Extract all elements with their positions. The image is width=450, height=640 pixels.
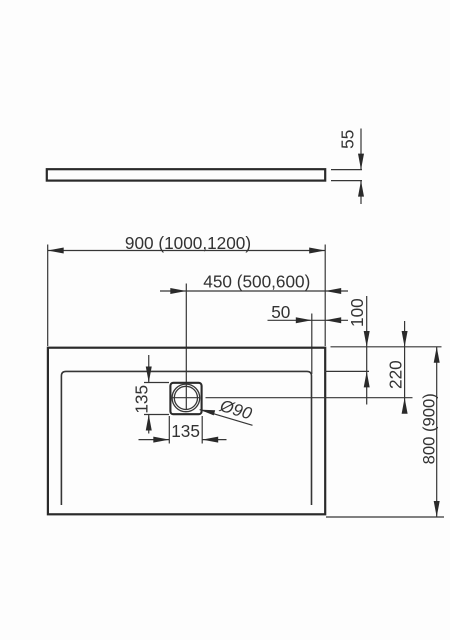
top edge extension line (right) [331, 346, 442, 348]
inner edge extension line (top) [325, 370, 370, 372]
side view tray outline [47, 169, 325, 180]
dim 55 line lower tail [360, 181, 362, 204]
dim 800 arrow up [434, 347, 440, 363]
drain inner circle [174, 386, 197, 409]
dim 450 line [160, 290, 348, 292]
svg-text:55: 55 [338, 130, 358, 149]
dim 220 arrow down [402, 331, 408, 347]
dim 55 arrow down [358, 154, 364, 170]
svg-text:135: 135 [171, 421, 200, 441]
dim 50 extension line [311, 314, 313, 375]
dim 55 line upper tail [360, 129, 362, 170]
svg-text:450 (500,600): 450 (500,600) [203, 272, 310, 292]
diameter leader arrow [200, 410, 216, 416]
diameter leader line [200, 410, 253, 426]
dim 450 arrow at centerline [170, 288, 186, 294]
svg-text:900 (1000,1200): 900 (1000,1200) [125, 233, 251, 253]
drain square [170, 383, 201, 414]
dim 50 line [268, 319, 349, 321]
dim 55 extension line bottom [331, 180, 362, 182]
dim 100 arrow down [364, 331, 370, 347]
dim 135 horizontal: extension left [168, 416, 170, 444]
svg-text:800 (900): 800 (900) [420, 393, 439, 464]
drain outer circle [172, 384, 200, 412]
dim 100 line [366, 296, 368, 405]
dim 135 vertical: lower tail [148, 415, 150, 434]
svg-text:135: 135 [132, 385, 152, 414]
dim 450 arrow at right edge [325, 288, 341, 294]
dim 900 arrow left [48, 248, 64, 254]
dim 50 arrow right [325, 317, 341, 323]
dim 900 arrow right [309, 248, 325, 254]
dim 800 arrow down [434, 501, 440, 517]
bottom edge extension line (right) [326, 516, 444, 518]
dim 800 line [436, 347, 438, 517]
drain cross horizontal [172, 397, 200, 399]
dim 135 horizontal: right tail [202, 439, 226, 441]
dim 135 horizontal: arrow left [202, 437, 218, 443]
dim 50 arrow left [296, 317, 312, 323]
plan view inner basin outline [61, 371, 311, 505]
svg-text:50: 50 [271, 302, 290, 322]
dim 135 vertical: extension bottom [144, 414, 169, 416]
dim 55 extension line top [331, 169, 362, 171]
dim 900 extension line left [47, 245, 49, 347]
dim 55 arrow up [358, 181, 364, 197]
dim 900 line [48, 250, 326, 252]
plan view outer rectangle [48, 348, 325, 515]
dim 220 line [404, 321, 406, 414]
dim 135 horizontal: extension right [201, 416, 203, 444]
dim 135 horizontal: arrow right [153, 437, 169, 443]
dim 135 horizontal: left tail [139, 439, 170, 441]
svg-text:220: 220 [386, 360, 406, 389]
dim 900 extension line right [324, 245, 326, 347]
drain center horizontal extension [206, 397, 413, 399]
dim 135 vertical: arrow up [146, 415, 152, 431]
dim 220 arrow up [402, 398, 408, 414]
svg-text:100: 100 [347, 298, 367, 327]
drain vertical centerline [185, 284, 187, 411]
dim 100 arrow up [364, 371, 370, 387]
dim 135 vertical: upper tail [148, 355, 150, 383]
dim 135 vertical: arrow down [146, 367, 152, 383]
dim 135 vertical: extension top [144, 382, 169, 384]
